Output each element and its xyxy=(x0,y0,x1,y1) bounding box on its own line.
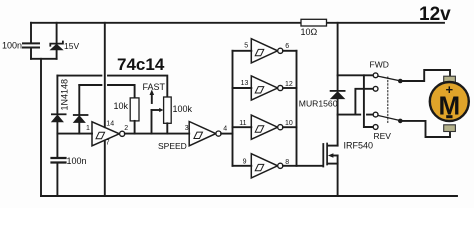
wire pin14 VDD vertical xyxy=(104,23,106,127)
zener D3 cathode bar with ticks xyxy=(50,42,63,46)
switch S1 FWD/REV DPDT xyxy=(338,73,403,129)
wire drain vertical lower xyxy=(337,99,339,146)
svg-text:1N4148: 1N4148 xyxy=(60,79,70,111)
resistor R3 10ohm body xyxy=(301,19,327,26)
zener D3 lead bottom xyxy=(56,50,58,59)
switch lever pole2 xyxy=(378,116,400,121)
capacitor C1 100n plates xyxy=(23,43,39,47)
op-amp U1A schmitt inverter gate1 pins 1,2,14,7 xyxy=(92,122,125,146)
diode D2 1N4148 lead top xyxy=(78,85,80,114)
resistor R1 lead bottom xyxy=(134,121,136,134)
op-amp U1D schmitt inverter gate4 pins 13,12 xyxy=(233,76,297,100)
op-amp U1E schmitt inverter gate5 pins 11,10 xyxy=(233,115,297,139)
wire A feedback top (pin1 side) xyxy=(57,76,167,97)
svg-text:1: 1 xyxy=(86,125,90,132)
svg-text:4: 4 xyxy=(223,125,227,132)
svg-text:15V: 15V xyxy=(64,41,79,51)
svg-text:100n: 100n xyxy=(67,156,87,166)
diode D2 lead bottom xyxy=(78,122,80,133)
wire gate1 input xyxy=(57,133,92,135)
wire gate outputs to MOSFET gate xyxy=(283,165,323,167)
svg-text:10: 10 xyxy=(285,120,293,127)
svg-text:8: 8 xyxy=(285,159,289,166)
svg-text:9: 9 xyxy=(243,158,247,165)
svg-text:10k: 10k xyxy=(114,101,129,111)
capacitor C1 lead bottom xyxy=(30,49,32,59)
svg-text:FAST: FAST xyxy=(143,82,166,92)
diode D2 triangle xyxy=(74,116,85,123)
FAST annotation arrow xyxy=(151,95,153,104)
wire top supply rail left of resistor xyxy=(31,22,301,24)
wire V1 +12V to REV contact xyxy=(364,75,373,127)
node dot pole1 common xyxy=(398,79,403,84)
wire +12V to FWD contact xyxy=(338,74,373,76)
resistor R1 10k body xyxy=(130,98,139,121)
wire drain node to switch xyxy=(338,114,373,116)
transistor Q1 IRF540 xyxy=(323,144,337,197)
svg-text:100n: 100n xyxy=(2,41,22,51)
wire top supply rail right of resistor (12V side) xyxy=(327,22,445,24)
svg-text:MUR1560: MUR1560 xyxy=(299,98,338,108)
svg-text:11: 11 xyxy=(239,120,246,127)
svg-text:5: 5 xyxy=(244,43,248,50)
diode D1 1N4148 lead top xyxy=(56,76,58,114)
motor M1 terminals xyxy=(444,76,456,83)
capacitor C2 lead bottom xyxy=(56,164,58,196)
motor M1 body xyxy=(430,82,469,121)
wire pin7 GND vertical xyxy=(104,141,106,197)
op-amp U1F schmitt inverter gate6 pins 9,8 xyxy=(233,154,283,178)
op-amp U1C schmitt inverter gate3 pins 5,6 xyxy=(233,39,297,63)
capacitor C1 100n lead top xyxy=(30,23,32,43)
svg-text:10Ω: 10Ω xyxy=(301,27,318,37)
wire gate2 output to input bus xyxy=(221,133,232,135)
zener D3 triangle xyxy=(51,44,63,49)
wire output bus vertical xyxy=(296,51,298,166)
wire bottom ground rail xyxy=(41,195,457,197)
svg-text:3: 3 xyxy=(185,125,189,132)
svg-text:REV: REV xyxy=(374,131,392,141)
diode D1 lead bottom xyxy=(56,122,58,157)
svg-text:2: 2 xyxy=(124,125,128,132)
op-amp U1B schmitt inverter gate2 pins 3,4 xyxy=(189,122,221,146)
diode D2 cathode bar xyxy=(74,114,88,116)
svg-text:12: 12 xyxy=(285,81,293,88)
switch mechanical link dotted xyxy=(387,77,389,123)
wire gate1 output to gate2 xyxy=(125,133,189,135)
svg-text:14: 14 xyxy=(106,120,114,127)
svg-text:6: 6 xyxy=(285,43,289,50)
diode D1 triangle xyxy=(52,115,63,122)
motor M1 labels xyxy=(438,82,460,120)
wire motor - route xyxy=(400,121,450,137)
wire V2 drain to second contact xyxy=(355,89,373,115)
switch contact circles xyxy=(373,73,378,78)
svg-text:13: 13 xyxy=(241,80,249,87)
wire cap/zener bottom xyxy=(31,58,57,60)
svg-text:7: 7 xyxy=(106,140,110,147)
svg-text:100k: 100k xyxy=(173,104,193,114)
wire left vertical to ground rail xyxy=(40,59,42,196)
wire B (pin2 to 10k top via diode D2) xyxy=(79,85,134,98)
potentiometer R2 lead bottom xyxy=(166,123,168,133)
diode D4 MUR1560 cathode bar xyxy=(331,90,345,92)
svg-text:12v: 12v xyxy=(419,4,451,25)
diode D4 MUR1560 triangle xyxy=(331,92,344,99)
diode D1 cathode bar xyxy=(52,113,66,115)
switch lever pole1 xyxy=(378,76,400,81)
svg-text:74c14: 74c14 xyxy=(117,55,165,74)
svg-text:FWD: FWD xyxy=(370,59,389,69)
wire input bus vertical xyxy=(232,51,234,166)
potentiometer R2 wiper arrow xyxy=(152,109,161,111)
potentiometer R2 100k body xyxy=(164,97,172,123)
svg-text:IRF540: IRF540 xyxy=(344,141,374,151)
zener D3 15V lead top xyxy=(56,23,58,43)
capacitor C2 100n plates xyxy=(52,158,66,163)
wire motor + route xyxy=(400,70,450,81)
wire wiper to output xyxy=(151,110,153,134)
wire 12V branch vertical upper xyxy=(337,23,339,90)
svg-text:SPEED: SPEED xyxy=(158,141,187,151)
node dot pole2 common xyxy=(398,119,403,124)
